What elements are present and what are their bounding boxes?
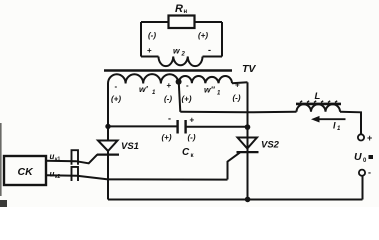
svg-text:-: - <box>115 82 118 91</box>
wire top box top edge right <box>195 21 223 23</box>
svg-text:-: - <box>186 81 189 90</box>
scan artifact left edge <box>0 123 2 196</box>
wire left rail <box>107 84 109 141</box>
svg-text:к: к <box>191 153 194 159</box>
wire center tap down <box>179 83 181 112</box>
wire top box top edge left <box>141 21 169 23</box>
svg-text:(+): (+) <box>198 31 208 40</box>
thyristor VS1 <box>98 141 118 152</box>
arrowhead I1 <box>311 116 320 123</box>
svg-text:CK: CK <box>18 166 35 178</box>
capacitor Ck left plate <box>176 120 178 134</box>
svg-text:U: U <box>354 151 362 163</box>
wire top box bottom edge left <box>141 56 159 58</box>
terminal + <box>358 134 364 140</box>
wire top box bottom edge right <box>203 56 223 58</box>
terminal - <box>359 170 365 176</box>
pulse symbol uk1 <box>72 150 79 165</box>
svg-text:w′: w′ <box>139 84 149 94</box>
node cap right <box>245 124 251 130</box>
svg-text:(+): (+) <box>111 95 121 104</box>
gate VS2 <box>228 152 241 179</box>
wire uk2 from CK <box>46 175 228 179</box>
wire uk1 from CK <box>46 154 97 163</box>
pulse symbol uk2 <box>72 167 79 181</box>
node cap left <box>105 124 110 129</box>
svg-text:2: 2 <box>181 52 186 58</box>
winding w2 <box>159 57 203 67</box>
svg-text:к2: к2 <box>55 174 61 180</box>
svg-text:+: + <box>167 81 172 90</box>
winding w'1 <box>108 74 179 83</box>
svg-text:(-): (-) <box>188 133 196 142</box>
svg-text:-: - <box>168 114 171 124</box>
svg-text:+: + <box>190 116 195 125</box>
scan artifact bottom left corner <box>0 200 7 207</box>
wire capacitor right <box>186 126 248 128</box>
svg-text:R: R <box>175 3 183 15</box>
wire VS1 anode-cathode vertical <box>107 151 109 200</box>
wire VS2 vertical <box>247 82 249 199</box>
svg-text:u: u <box>50 170 55 179</box>
wire top box right edge <box>221 22 223 57</box>
svg-text:VS2: VS2 <box>261 140 280 151</box>
winding w''1 <box>179 76 233 83</box>
svg-text:w″: w″ <box>204 85 216 95</box>
svg-text:VS1: VS1 <box>121 141 139 152</box>
svg-text:-: - <box>368 168 371 178</box>
svg-text:к1: к1 <box>55 157 61 163</box>
wire winding right end to corner <box>232 82 248 83</box>
arrow I1 <box>316 118 346 120</box>
svg-text:(+): (+) <box>162 133 172 142</box>
CK box <box>4 156 46 185</box>
svg-text:н: н <box>184 9 188 15</box>
svg-text:+: + <box>147 46 152 55</box>
inductor L <box>297 104 341 111</box>
svg-text:(-): (-) <box>148 31 156 40</box>
node bottom rail VS2 <box>245 197 251 203</box>
svg-text:+: + <box>367 133 372 143</box>
svg-text:u: u <box>50 152 55 161</box>
svg-text:L: L <box>315 91 321 102</box>
svg-text:(-): (-) <box>233 94 241 103</box>
svg-text:TV: TV <box>242 63 256 75</box>
thyristor VS2 <box>238 138 258 149</box>
wire center tap to inductor <box>180 111 296 114</box>
svg-text:+: + <box>235 81 240 90</box>
wire inductor to + terminal <box>340 112 361 134</box>
svg-text:C: C <box>182 147 190 158</box>
capacitor Ck right plate <box>184 120 186 134</box>
inductor core bar <box>296 103 341 106</box>
wire bottom rail <box>108 176 363 200</box>
wire top box left edge <box>140 22 142 57</box>
svg-text:-: - <box>208 45 211 55</box>
wire capacitor left <box>108 125 177 127</box>
svg-text:(+): (+) <box>182 95 192 104</box>
svg-text:(-): (-) <box>164 95 172 104</box>
transformer core TV <box>104 69 232 72</box>
resistor Rn <box>169 16 195 29</box>
node center tap <box>176 79 182 85</box>
